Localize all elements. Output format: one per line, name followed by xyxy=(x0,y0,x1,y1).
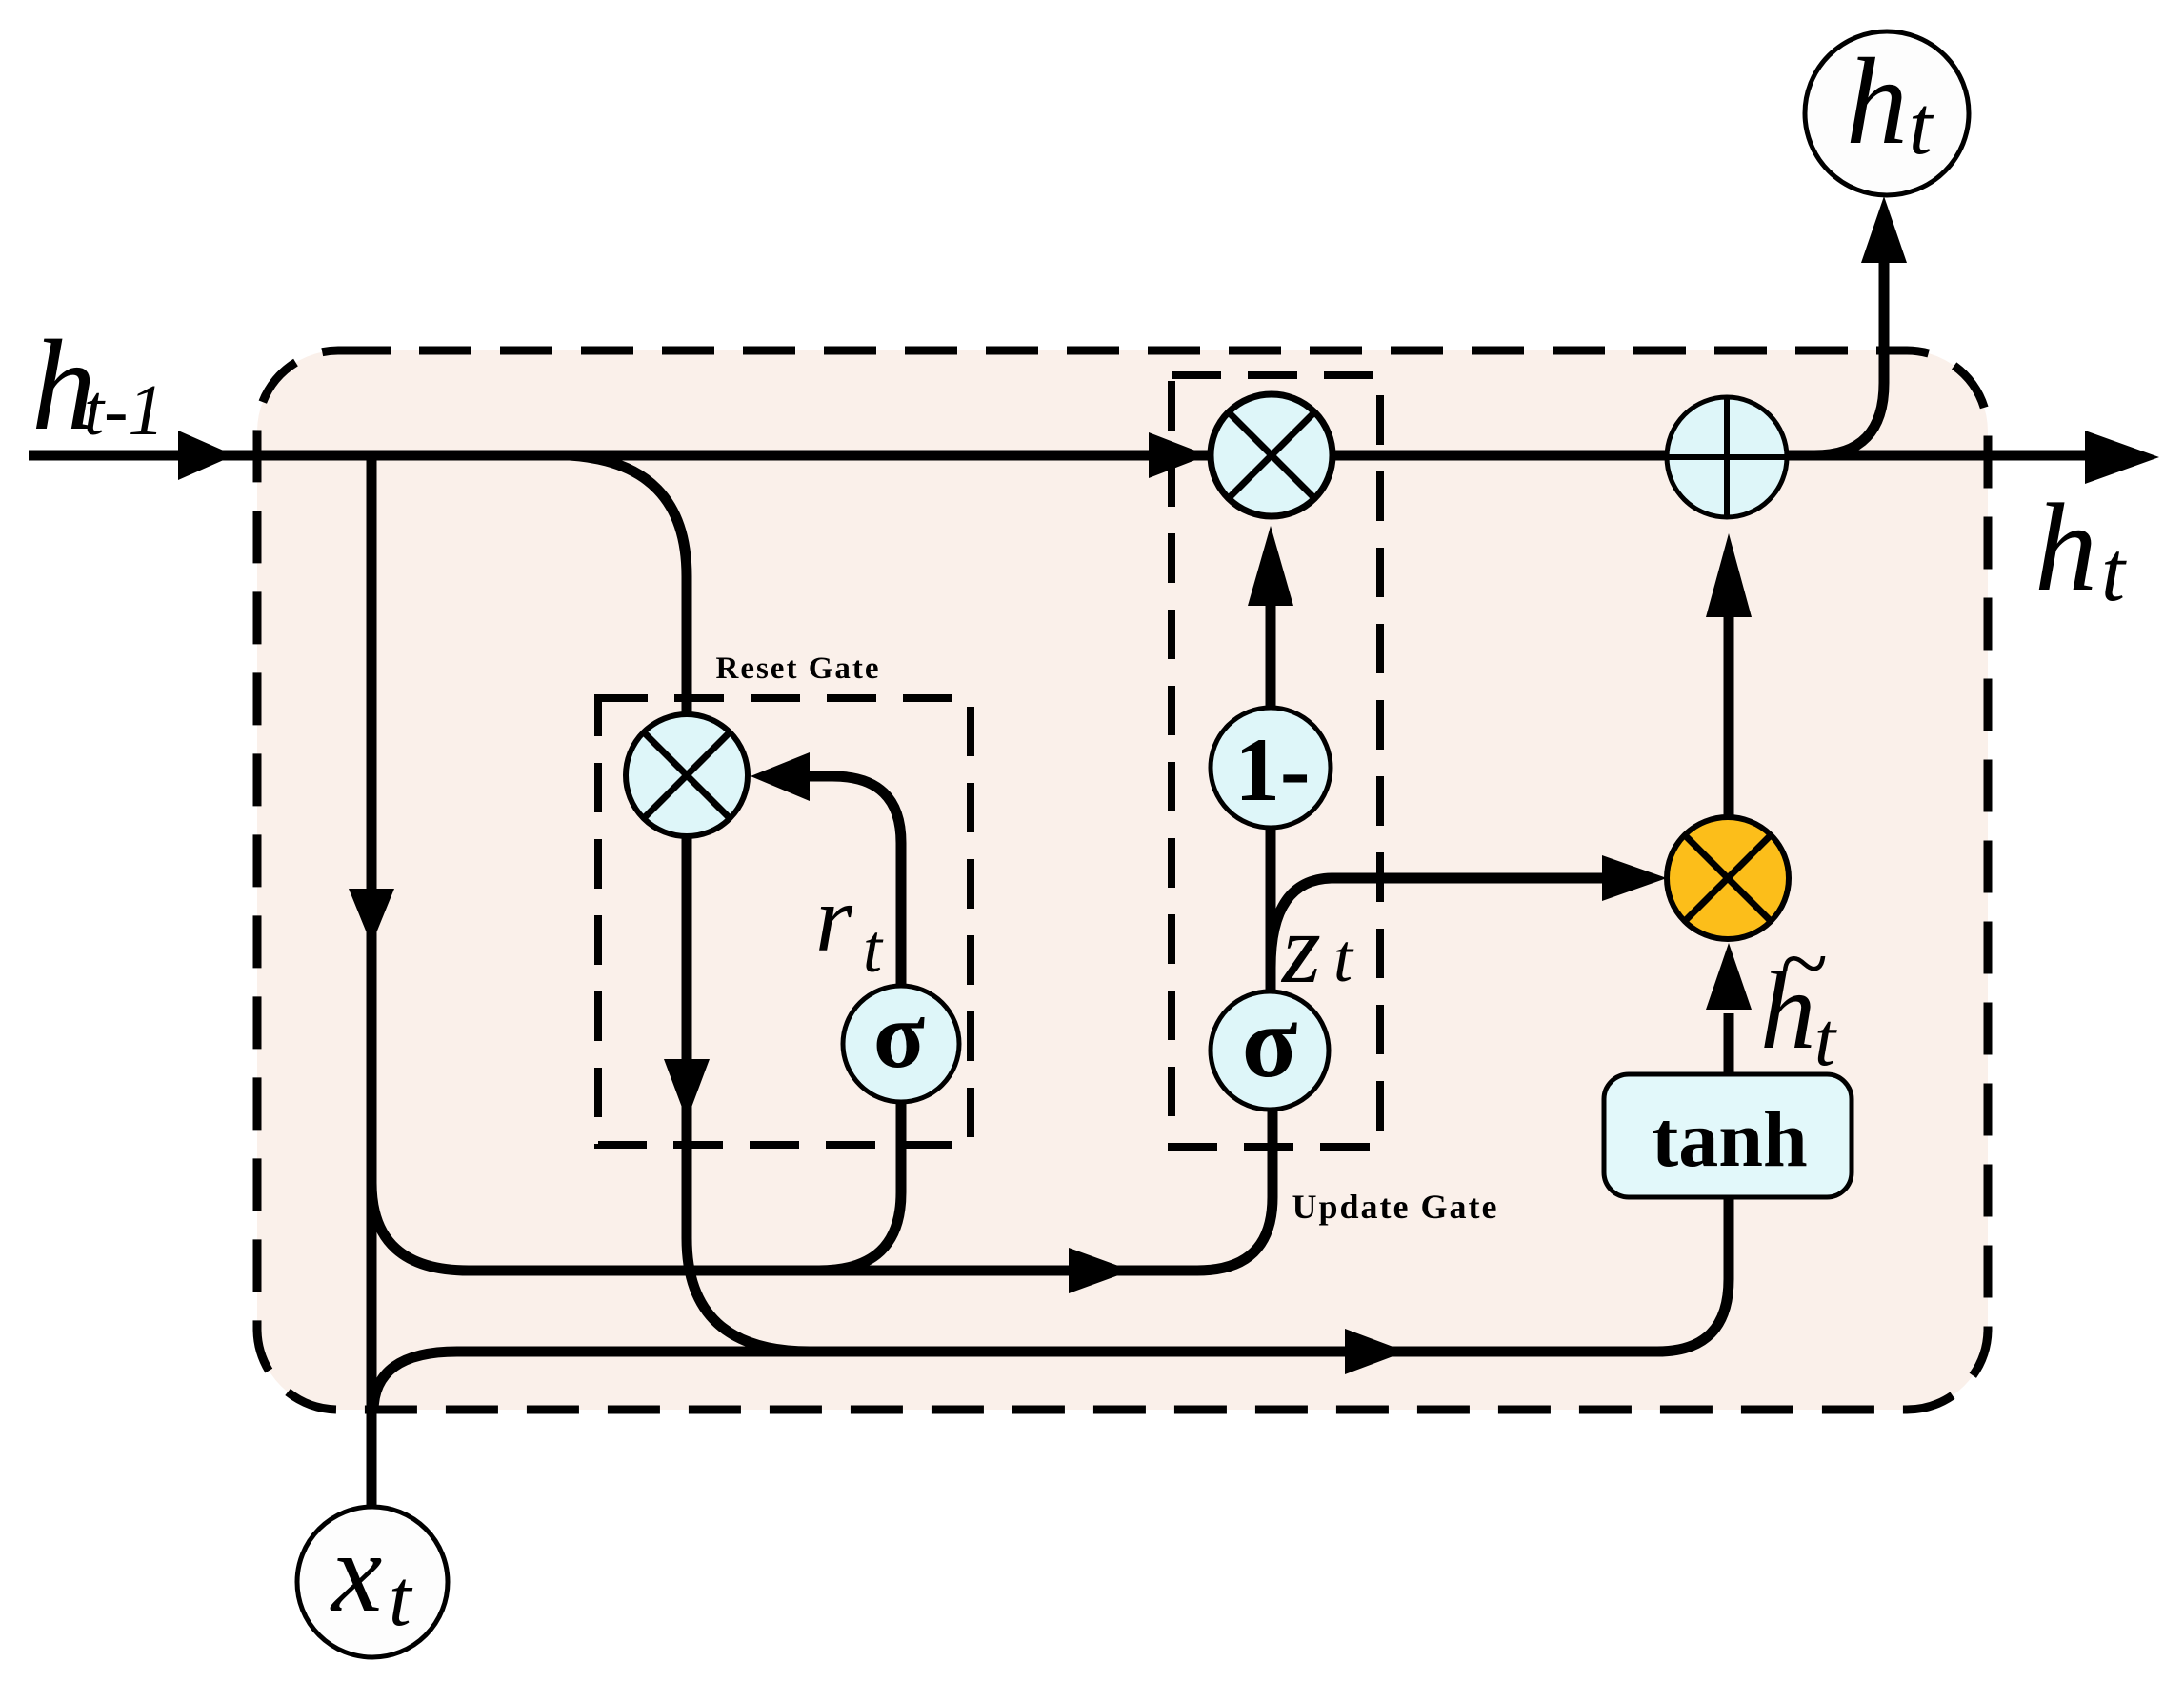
wire: main h(t-1) horizontal line xyxy=(29,451,2091,461)
wire: 1- up to update multiplier xyxy=(1266,604,1276,710)
arrowhead down on reset output xyxy=(664,1059,710,1120)
wire: orange multiplier up to plus xyxy=(1724,615,1734,815)
svg-text:t: t xyxy=(1333,920,1354,996)
reset sigma circle xyxy=(843,986,959,1102)
svg-text:h: h xyxy=(1846,33,1908,170)
svg-text:tanh: tanh xyxy=(1652,1095,1807,1184)
wire: h(t-1)/x_t shared vertical branch xyxy=(367,455,377,1508)
wire: reset gate output down to line B xyxy=(687,834,810,1352)
svg-text:r: r xyxy=(815,866,853,971)
arrowhead into orange multiplier xyxy=(1602,855,1667,901)
arrowhead up into h_t circle xyxy=(1861,196,1907,263)
wire: branch from line A up into reset sigma xyxy=(819,1100,901,1271)
wire: plus output up to h_t circle xyxy=(1814,261,1884,455)
svg-text:1-: 1- xyxy=(1234,719,1310,820)
wire: r_t loop from reset sigma to reset multiplier xyxy=(808,776,901,987)
reset multiplier circle xyxy=(626,714,748,836)
svg-text:Update Gate: Update Gate xyxy=(1292,1188,1499,1226)
plus circle xyxy=(1667,397,1787,517)
arrowhead up into update multiplier xyxy=(1248,526,1293,606)
Update Gate dashed box xyxy=(1172,375,1380,1147)
arrowhead on line B xyxy=(1345,1329,1406,1374)
svg-text:σ: σ xyxy=(873,982,925,1088)
wire: branch from main line down into reset gate multiplier xyxy=(570,455,687,716)
arrowhead entry on main line xyxy=(178,431,234,480)
1- circle xyxy=(1211,708,1331,828)
arrowhead down on branch xyxy=(349,889,394,945)
arrowhead into update multiplier from left xyxy=(1149,432,1208,478)
svg-text:x: x xyxy=(330,1509,382,1635)
svg-text:t: t xyxy=(389,1553,413,1643)
svg-text:Reset Gate: Reset Gate xyxy=(715,651,880,686)
update sigma circle xyxy=(1211,991,1329,1110)
arrowhead up into plus xyxy=(1706,533,1752,617)
wire: z_t branch to orange multiplier xyxy=(1271,878,1604,968)
GRU cell body (outer dashed rounded box) xyxy=(257,350,1988,1410)
tanh box xyxy=(1604,1074,1852,1197)
svg-text:t-1: t-1 xyxy=(84,370,164,451)
svg-text:t: t xyxy=(2101,525,2127,619)
wire: tanh up to orange multiplier xyxy=(1724,1013,1734,1074)
x_t input circle xyxy=(297,1507,448,1657)
svg-text:z: z xyxy=(1280,892,1321,1004)
wire: line B from x_t vertical to tanh xyxy=(373,1197,1729,1412)
orange multiplier circle xyxy=(1667,817,1789,939)
arrowhead up into orange multiplier xyxy=(1706,943,1752,1010)
h_t output circle xyxy=(1805,31,1969,195)
arrowhead exit h_t xyxy=(2085,431,2159,484)
svg-text:t: t xyxy=(863,911,884,987)
arrowhead on line A xyxy=(1069,1248,1132,1293)
wire: bottom line A to update sigma xyxy=(371,1110,1272,1271)
update multiplier circle xyxy=(1211,394,1332,516)
svg-text:t: t xyxy=(1909,80,1934,172)
svg-text:h: h xyxy=(2034,477,2097,617)
svg-text:t: t xyxy=(1814,998,1837,1082)
wire: z_t vertical sigma->1- xyxy=(1266,828,1276,993)
Reset Gate dashed box xyxy=(598,698,971,1145)
arrowhead into reset multiplier xyxy=(751,752,810,801)
svg-text:h: h xyxy=(1760,950,1816,1072)
